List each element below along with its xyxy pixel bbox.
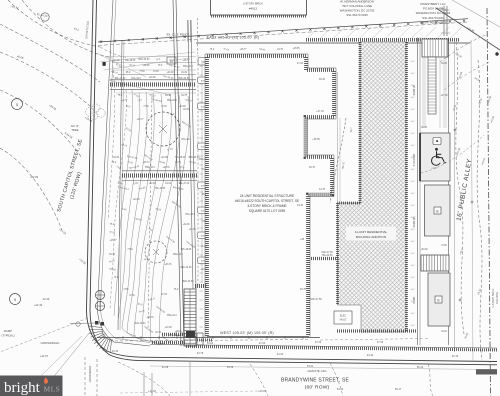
svg-text:+67.00: +67.00 [440,95,448,97]
svg-text:+48.55: +48.55 [292,48,300,50]
svg-text:BW+44.50: BW+44.50 [183,281,195,283]
svg-text:BW+44.50: BW+44.50 [139,59,151,61]
svg-text:INV+43.2: INV+43.2 [169,335,179,337]
svg-text:CROSSWALK: CROSSWALK [40,341,59,345]
svg-text:+44.38: +44.38 [164,327,172,329]
svg-text:46.76: 46.76 [309,166,316,169]
svg-text:EAST 105.03' (M) 105.00' (R): EAST 105.03' (M) 105.00' (R) [207,36,260,40]
svg-text:+44.38: +44.38 [166,72,174,74]
svg-text:BRANDYWINE STREET, SE: BRANDYWINE STREET, SE [281,378,350,384]
svg-text:2-STORY BRICK: 2-STORY BRICK [243,2,263,6]
svg-text:43.78: 43.78 [197,352,204,355]
svg-text:EM+47.00: EM+47.00 [179,183,190,185]
svg-text:EX. 8": EX. 8" [71,124,79,128]
svg-text:44.0: 44.0 [411,109,415,111]
svg-text:VAULT: VAULT [339,319,347,322]
svg-text:CROSSWALK: CROSSWALK [88,365,92,382]
svg-text:44.0: 44.0 [411,241,415,243]
svg-text:SQUARE 6170 LOT 0095: SQUARE 6170 LOT 0095 [249,209,286,213]
svg-text:54.61: 54.61 [307,365,314,368]
svg-text:44.0: 44.0 [411,229,415,231]
svg-text:+4.50: +4.50 [431,168,437,170]
svg-text:56.17: 56.17 [395,388,402,391]
svg-text:+44.09: +44.09 [148,77,156,79]
svg-text:47.03: 47.03 [297,62,304,65]
svg-text:8.3%: 8.3% [153,71,158,73]
svg-text:41.28: 41.28 [162,366,169,369]
svg-text:44.75: 44.75 [181,95,187,97]
svg-text:+47.03: +47.03 [316,110,324,113]
svg-text:44.16: 44.16 [297,204,304,207]
svg-text:5: 5 [16,103,18,107]
svg-text:44.02: 44.02 [277,353,284,356]
svg-text:34.04: 34.04 [441,331,447,333]
svg-text:75.2: 75.2 [112,162,117,164]
svg-text:45.9: 45.9 [126,72,131,74]
svg-text:44.0: 44.0 [411,289,415,291]
svg-text:+44.09: +44.09 [160,157,168,159]
svg-text:RAMP: RAMP [4,329,12,333]
svg-text:+42.46: +42.46 [34,303,43,307]
svg-text:+48.55: +48.55 [312,138,320,141]
svg-text:+42.97: +42.97 [40,354,49,358]
svg-text:11-UNIT RESIDENTIAL: 11-UNIT RESIDENTIAL [355,230,388,234]
svg-text:62.05: 62.05 [441,63,447,65]
svg-text:TW+45.05: TW+45.05 [175,157,186,159]
svg-text:(TYPICAL): (TYPICAL) [2,334,15,338]
svg-text:8.3% RAMP: 8.3% RAMP [413,153,416,166]
svg-text:44.0: 44.0 [411,193,415,195]
svg-text:44.0: 44.0 [411,73,415,75]
svg-text:+46.76: +46.76 [146,317,154,319]
svg-text:+44.09: +44.09 [112,60,120,62]
svg-text:47.03: 47.03 [377,341,384,344]
svg-text:BW+43.2: BW+43.2 [145,167,155,169]
svg-text:BW+43.2: BW+43.2 [173,254,183,256]
svg-text:40.05: 40.05 [421,127,427,129]
svg-text:+45.77: +45.77 [142,162,150,164]
svg-text:EX. C.L.T. FENCE: EX. C.L.T. FENCE [167,32,190,36]
svg-text:44.0: 44.0 [411,265,415,267]
svg-text:42.46: 42.46 [43,297,50,301]
svg-text:+45: +45 [300,238,305,241]
svg-text:44.0: 44.0 [411,301,415,303]
svg-text:64.45: 64.45 [109,254,115,256]
svg-text:TW+44.50: TW+44.50 [321,254,333,257]
svg-text:75.2: 75.2 [110,224,115,226]
svg-text:44.0: 44.0 [411,169,415,171]
svg-text:+44.38: +44.38 [178,106,186,108]
svg-text:TREE: TREE [71,128,78,132]
svg-text:B: B [437,298,439,302]
svg-text:63.09: 63.09 [227,366,234,369]
svg-text:+45.77: +45.77 [182,60,190,62]
svg-text:44.0: 44.0 [411,85,415,87]
svg-text:BW+44.50: BW+44.50 [179,78,191,80]
svg-text:43.29: 43.29 [113,157,119,159]
svg-text:73.5: 73.5 [114,277,119,279]
svg-text:64.45: 64.45 [165,95,171,97]
svg-text:TW+45.05: TW+45.05 [155,188,166,190]
svg-text:7.5%: 7.5% [123,289,128,291]
svg-text:47.04: 47.04 [259,342,266,345]
svg-text:EM+47.00: EM+47.00 [115,78,126,80]
svg-text:INV+43.2: INV+43.2 [131,78,141,80]
svg-text:TW+45.05: TW+45.05 [125,60,136,62]
svg-text:43.29: 43.29 [181,72,187,74]
svg-text:BUILDING ADDITION: BUILDING ADDITION [356,235,386,239]
svg-text:75.2: 75.2 [174,289,179,291]
svg-text:BW+43.2: BW+43.2 [167,315,177,317]
svg-text:44.0: 44.0 [411,61,415,63]
svg-text:+44.09: +44.09 [182,224,190,226]
svg-text:#4016-#4022 SOUTH CAPITOL STRE: #4016-#4022 SOUTH CAPITOL STREET, SE [235,199,299,203]
svg-text:74.00: 74.00 [441,245,447,247]
svg-text:(60' ROW): (60' ROW) [305,385,330,391]
svg-text:+43.93: +43.93 [258,390,266,393]
svg-text:WEST 105.03' (M) 105.00' (R): WEST 105.03' (M) 105.00' (R) [220,331,274,335]
svg-text:47.03: 47.03 [169,60,175,62]
svg-text:44.75: 44.75 [175,162,181,164]
svg-text:+48.55: +48.55 [142,65,150,67]
svg-text:INVESTMENT, LLC: INVESTMENT, LLC [420,2,445,6]
svg-text:43.29: 43.29 [155,332,161,334]
svg-text:44.0: 44.0 [411,121,415,123]
svg-text:+45.77: +45.77 [136,119,144,121]
svg-text:+45.77: +45.77 [109,240,117,242]
svg-text:58.16: 58.16 [417,366,424,369]
svg-text:SSL #6170 0041: SSL #6170 0041 [422,16,444,20]
svg-text:7.5%: 7.5% [127,249,132,251]
svg-text:+44.09: +44.09 [188,229,196,231]
svg-text:bright: bright [4,380,41,396]
svg-text:MLS: MLS [44,385,61,394]
svg-text:24-UNIT RESIDENTIAL STRUCTURE: 24-UNIT RESIDENTIAL STRUCTURE [240,194,294,198]
svg-text:44.0: 44.0 [411,325,415,327]
svg-text:8.3%: 8.3% [129,295,134,297]
svg-text:8.3%: 8.3% [161,106,166,108]
svg-text:44.0: 44.0 [411,277,415,279]
svg-text:73.5: 73.5 [158,65,163,67]
svg-text:46.75: 46.75 [300,288,307,291]
svg-text:3-STORY BRICK & FRAME: 3-STORY BRICK & FRAME [247,204,286,208]
svg-text:34.02: 34.02 [207,342,214,345]
svg-text:2-STORY BRICK: 2-STORY BRICK [492,288,495,307]
svg-text:44.0: 44.0 [411,97,415,99]
svg-text:7917 COLONIAL LANE: 7917 COLONIAL LANE [342,4,372,8]
svg-text:#4012: #4012 [249,7,258,11]
svg-text:SW+47.55: SW+47.55 [310,298,322,301]
svg-text:44.0: 44.0 [411,217,415,219]
svg-text:44.0: 44.0 [411,145,415,147]
svg-text:5: 5 [14,298,16,302]
svg-text:ELEC: ELEC [340,316,346,318]
svg-text:47.03: 47.03 [315,341,322,344]
svg-text:75.2: 75.2 [170,114,175,116]
svg-text:WASHINGTON, DC 20735: WASHINGTON, DC 20735 [340,8,375,12]
svg-text:INSTR. #201760812: INSTR. #201760812 [420,20,447,24]
svg-text:B: B [436,209,438,213]
svg-text:+44.38: +44.38 [148,183,156,185]
svg-text:46.10: 46.10 [452,355,459,358]
svg-text:44.0: 44.0 [411,205,415,207]
svg-text:44.0: 44.0 [411,181,415,183]
svg-text:44.40: 44.40 [367,354,374,357]
svg-text:BUILDING: BUILDING [496,292,499,304]
svg-text:BW+44.50: BW+44.50 [181,267,193,269]
svg-text:SSL #6170 0045: SSL #6170 0045 [346,13,368,17]
svg-text:44.75: 44.75 [319,188,326,191]
svg-text:47.03: 47.03 [161,294,167,296]
svg-text:7.5%: 7.5% [143,106,148,108]
svg-text:54.13: 54.13 [337,388,344,391]
svg-text:7.5%: 7.5% [139,71,144,73]
svg-text:75.2: 75.2 [210,49,215,51]
svg-text:+46.76: +46.76 [164,264,172,266]
svg-text:66.45: 66.45 [319,78,326,81]
svg-text:43.29: 43.29 [165,183,171,185]
svg-text:+44.38: +44.38 [132,199,140,201]
svg-text:BW+43.2: BW+43.2 [183,66,193,68]
svg-text:44.0: 44.0 [411,133,415,135]
svg-text:44.0: 44.0 [411,253,415,255]
svg-text:43.29: 43.29 [183,109,189,111]
svg-text:+43.03: +43.03 [148,390,156,393]
svg-text:+45.77: +45.77 [239,49,247,51]
svg-text:BW+44.50: BW+44.50 [135,323,147,325]
svg-text:INV+43.2: INV+43.2 [181,139,191,141]
svg-text:GRANITE C&G: GRANITE C&G [307,369,326,373]
svg-text:75.2: 75.2 [118,95,123,97]
svg-text:43.40: 43.40 [112,350,119,353]
svg-text:INV+43.2: INV+43.2 [185,214,195,216]
svg-text:+46.76: +46.76 [162,167,170,169]
svg-text:44.75: 44.75 [277,49,283,51]
svg-text:44.0: 44.0 [411,313,415,315]
svg-text:+43.99: +43.99 [30,175,39,179]
svg-text:TW+45.05: TW+45.05 [181,249,192,251]
svg-text:+63.00: +63.00 [420,249,428,251]
svg-text:BW+43.2: BW+43.2 [167,100,177,102]
svg-text:44.0: 44.0 [411,157,415,159]
